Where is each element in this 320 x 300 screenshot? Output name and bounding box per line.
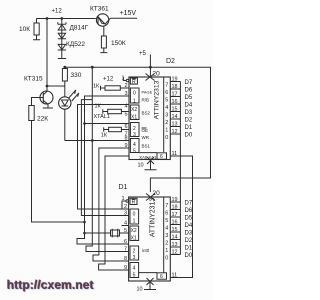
svg-text:330: 330 — [71, 72, 82, 79]
svg-text:Д814Г: Д814Г — [70, 25, 89, 32]
svg-text:10К: 10К — [19, 26, 30, 33]
svg-text:14: 14 — [172, 235, 178, 241]
svg-text:22К: 22К — [37, 116, 48, 123]
svg-text:4: 4 — [124, 104, 127, 110]
svg-text:16: 16 — [172, 99, 178, 105]
svg-text:D7: D7 — [185, 201, 193, 207]
svg-text:WR: WR — [142, 135, 150, 140]
svg-text:BS1: BS1 — [142, 144, 151, 149]
svg-text:D0: D0 — [185, 253, 193, 259]
svg-text:3: 3 — [133, 132, 136, 138]
svg-text:10: 10 — [137, 287, 143, 293]
svg-text:+15V: +15V — [120, 10, 137, 17]
svg-text:X2: X2 — [131, 107, 137, 113]
svg-text:0: 0 — [165, 135, 168, 141]
svg-text:+12: +12 — [52, 9, 63, 15]
svg-text:XTAL1: XTAL1 — [94, 114, 110, 120]
svg-text:20: 20 — [153, 71, 161, 78]
svg-text:D3: D3 — [185, 110, 193, 116]
svg-text:1: 1 — [165, 248, 168, 254]
svg-text:1: 1 — [121, 196, 124, 202]
svg-text:D3: D3 — [185, 231, 193, 237]
svg-text:КТ361: КТ361 — [90, 6, 109, 13]
svg-text:2: 2 — [133, 126, 136, 132]
svg-text:КТ315: КТ315 — [24, 76, 43, 83]
svg-text:2: 2 — [133, 248, 136, 254]
svg-text:R/B: R/B — [142, 98, 150, 103]
svg-text:12: 12 — [172, 129, 178, 135]
svg-text:2: 2 — [124, 83, 127, 89]
svg-text:D2: D2 — [185, 238, 193, 244]
svg-text:150К: 150К — [111, 40, 126, 47]
svg-text:6: 6 — [165, 90, 168, 96]
svg-text:0: 0 — [133, 212, 136, 218]
svg-text:5: 5 — [165, 218, 168, 224]
svg-text:8: 8 — [124, 136, 127, 142]
svg-text:OE: OE — [142, 128, 149, 133]
svg-text:5: 5 — [124, 112, 127, 118]
svg-text:1: 1 — [121, 76, 124, 82]
svg-text:6: 6 — [165, 211, 168, 217]
svg-text:5: 5 — [165, 98, 168, 104]
svg-text:D1: D1 — [185, 246, 193, 252]
svg-text:D1: D1 — [119, 184, 128, 191]
svg-text:17: 17 — [172, 92, 178, 98]
svg-text:6: 6 — [160, 154, 163, 160]
svg-text:X2: X2 — [131, 228, 137, 234]
svg-text:11: 11 — [172, 273, 178, 279]
svg-text:X1: X1 — [131, 235, 137, 241]
svg-text:1К: 1К — [101, 132, 108, 138]
svg-text:19: 19 — [172, 197, 178, 203]
svg-text:18: 18 — [172, 84, 178, 90]
svg-text:D1: D1 — [185, 125, 193, 131]
svg-text:2: 2 — [165, 241, 168, 247]
svg-text:6: 6 — [160, 274, 163, 280]
svg-text:R: R — [132, 79, 136, 85]
svg-text:6: 6 — [124, 239, 127, 245]
svg-text:1К: 1К — [95, 103, 102, 109]
svg-text:КД522: КД522 — [66, 41, 85, 48]
svg-text:D5: D5 — [185, 95, 193, 101]
svg-text:int0: int0 — [142, 248, 150, 253]
svg-text:5: 5 — [133, 148, 136, 154]
svg-text:1: 1 — [165, 128, 168, 134]
svg-text:13: 13 — [172, 122, 178, 128]
svg-text:BS2: BS2 — [142, 111, 151, 116]
svg-text:X1: X1 — [131, 114, 137, 120]
svg-text:16: 16 — [172, 220, 178, 226]
svg-text:3: 3 — [165, 233, 168, 239]
svg-text:+12: +12 — [103, 77, 114, 83]
svg-text:2: 2 — [165, 120, 168, 126]
svg-text:D2: D2 — [166, 58, 175, 65]
svg-text:3: 3 — [133, 255, 136, 261]
svg-text:7: 7 — [124, 247, 127, 253]
svg-text:1: 1 — [133, 98, 136, 104]
svg-text:15: 15 — [172, 227, 178, 233]
svg-text:7: 7 — [165, 83, 168, 89]
svg-text:3: 3 — [124, 91, 127, 97]
svg-text:19: 19 — [172, 77, 178, 83]
svg-text:12: 12 — [172, 250, 178, 256]
svg-text:6: 6 — [124, 124, 127, 130]
svg-text:15: 15 — [172, 107, 178, 113]
svg-text:PAGE: PAGE — [142, 90, 153, 95]
svg-text:D4: D4 — [185, 223, 193, 229]
svg-text:4: 4 — [133, 142, 136, 148]
svg-text:R: R — [132, 200, 136, 206]
svg-text:10: 10 — [138, 163, 144, 169]
svg-text:D4: D4 — [185, 103, 193, 109]
svg-text:14: 14 — [172, 114, 178, 120]
svg-text:8: 8 — [124, 256, 127, 262]
svg-text:1: 1 — [133, 218, 136, 224]
svg-text:9: 9 — [124, 265, 127, 271]
svg-text:13: 13 — [172, 242, 178, 248]
svg-text:4: 4 — [165, 105, 168, 111]
svg-text:D0: D0 — [185, 133, 193, 139]
svg-text:3: 3 — [165, 113, 168, 119]
svg-text:1К: 1К — [93, 84, 100, 90]
svg-text:+5: +5 — [139, 51, 147, 57]
svg-text:4: 4 — [133, 266, 136, 272]
svg-text:ATTINY2313: ATTINY2313 — [154, 80, 161, 119]
svg-text:5: 5 — [133, 272, 136, 278]
svg-text:0: 0 — [165, 256, 168, 262]
svg-text:17: 17 — [172, 212, 178, 218]
svg-text:D6: D6 — [185, 208, 193, 214]
svg-text:4: 4 — [165, 226, 168, 232]
svg-text:D5: D5 — [185, 216, 193, 222]
svg-text:0: 0 — [133, 91, 136, 97]
svg-text:D6: D6 — [185, 88, 193, 94]
svg-text:20: 20 — [153, 190, 161, 197]
svg-text:D2: D2 — [185, 118, 193, 124]
svg-text:3: 3 — [124, 211, 127, 217]
svg-text:D7: D7 — [185, 80, 193, 86]
svg-text:7: 7 — [165, 203, 168, 209]
svg-text:18: 18 — [172, 205, 178, 211]
svg-text:ATTINY2313: ATTINY2313 — [150, 198, 157, 237]
svg-text:9: 9 — [124, 143, 127, 149]
svg-text:2: 2 — [124, 204, 127, 210]
